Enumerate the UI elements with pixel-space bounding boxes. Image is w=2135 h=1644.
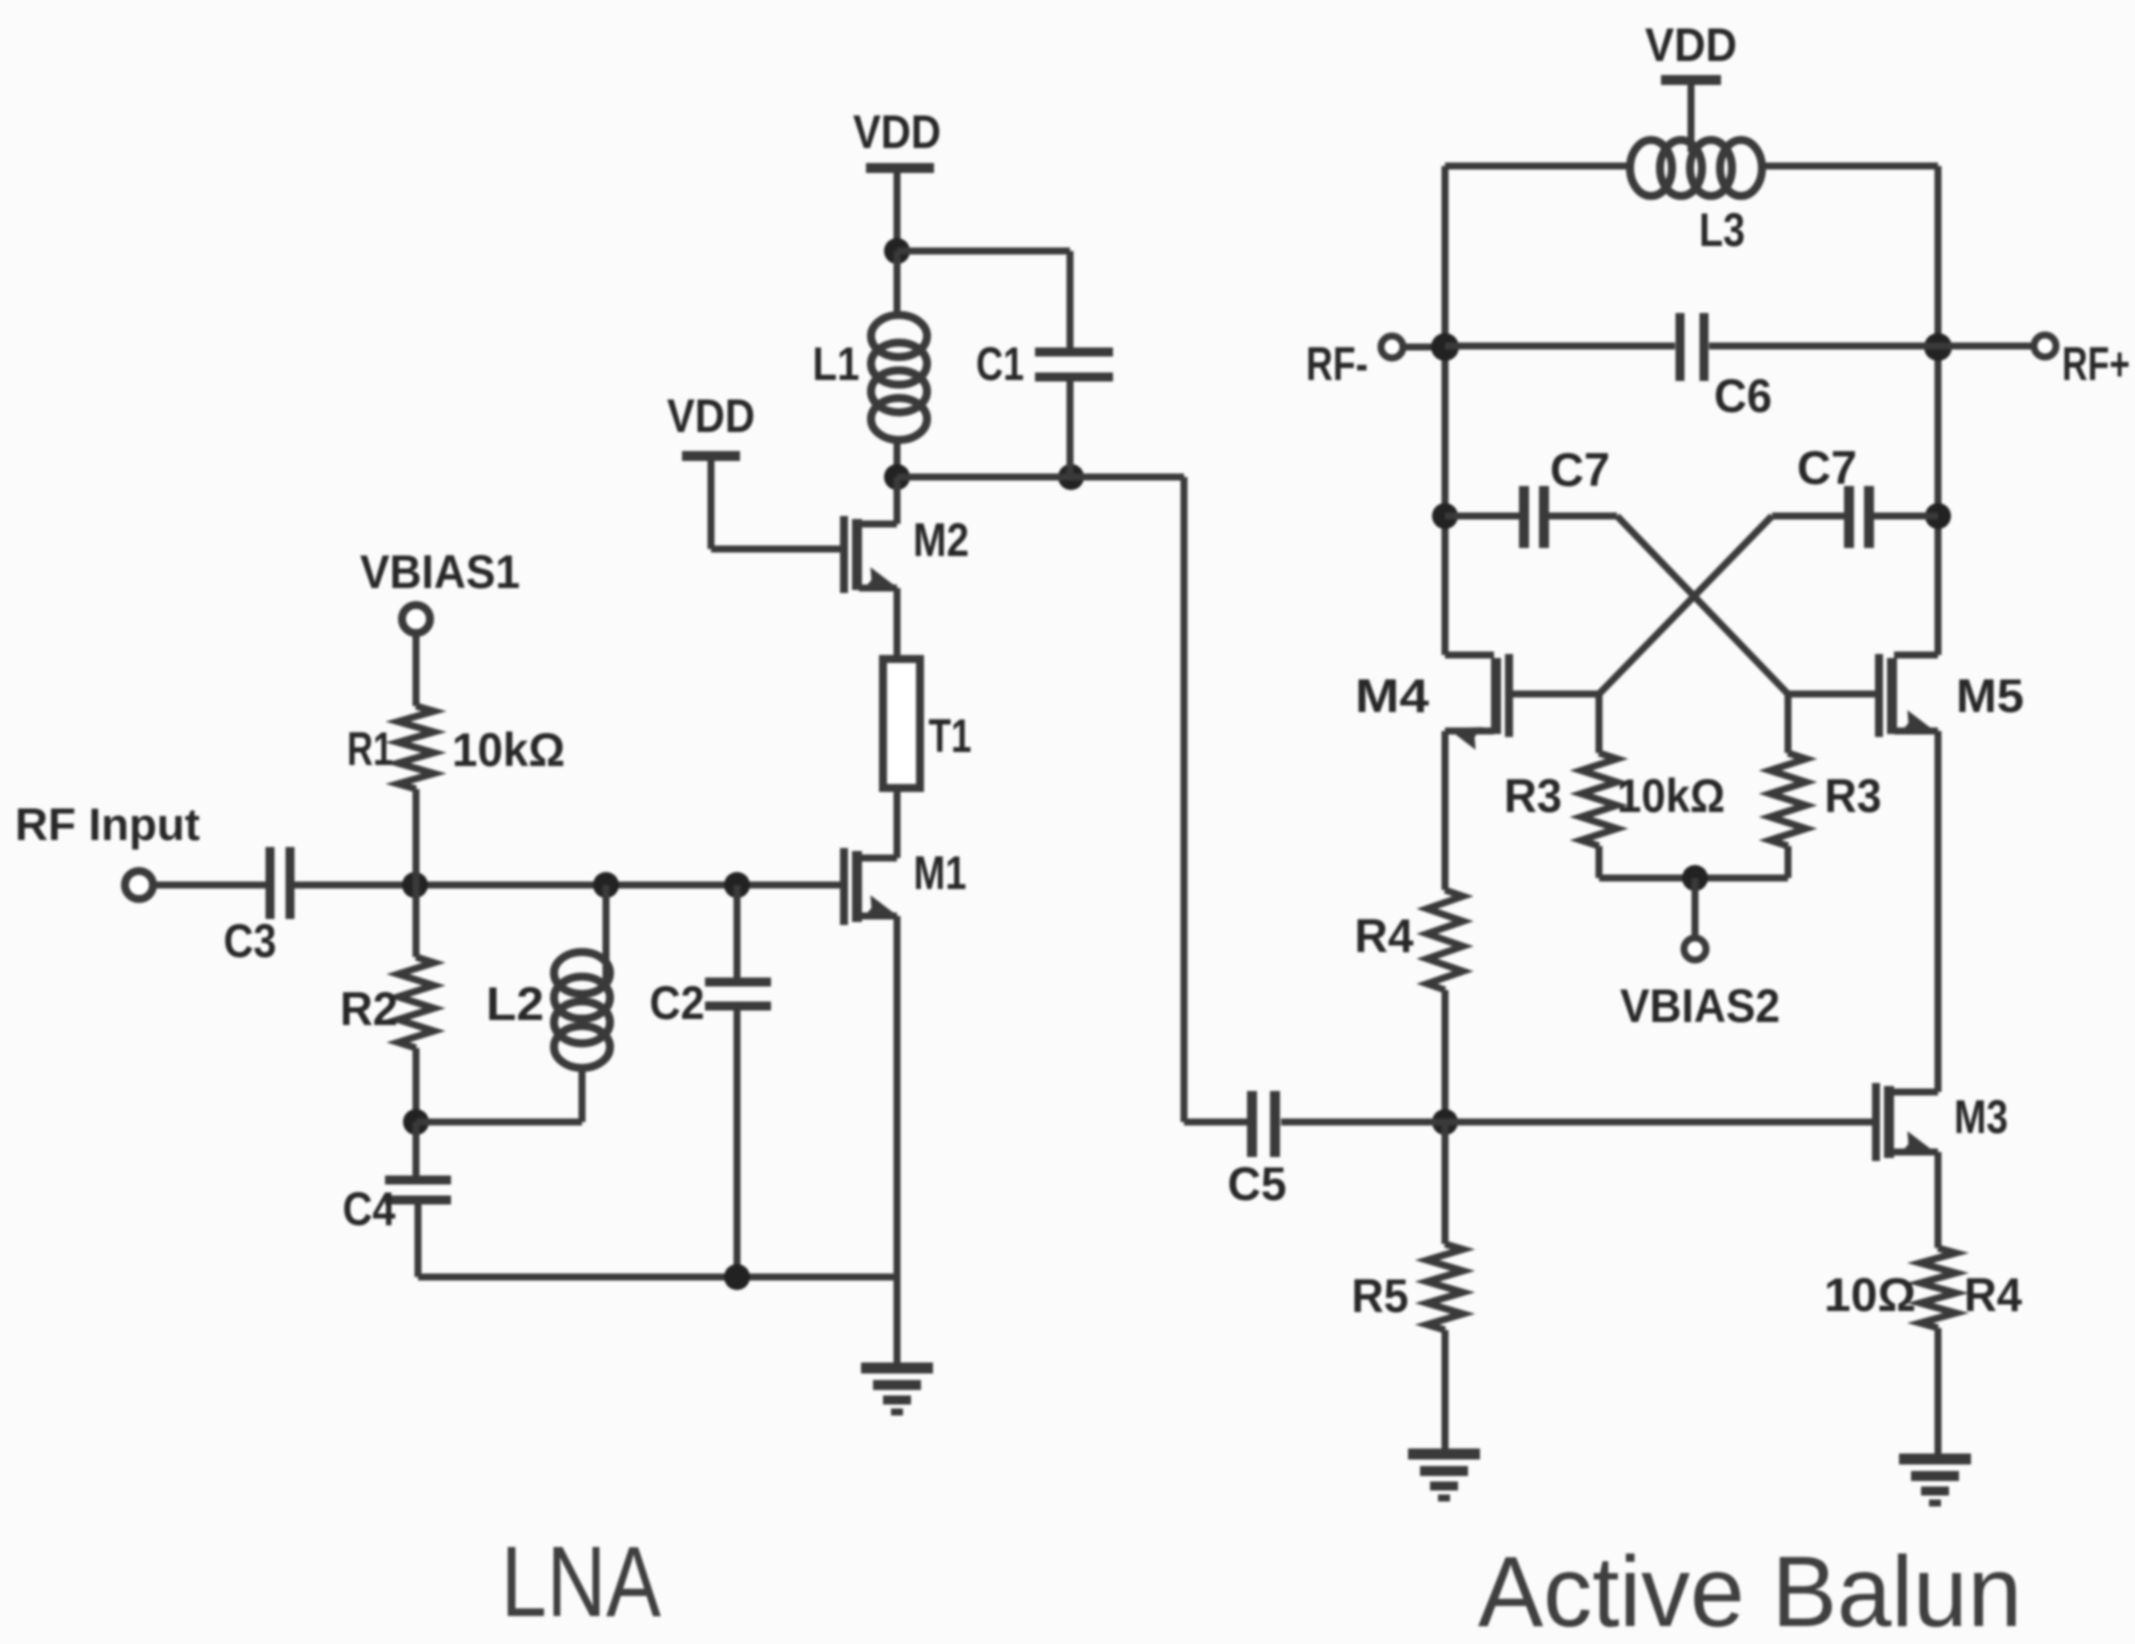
svg-text:R4: R4 xyxy=(1964,1268,2022,1321)
svg-text:L1: L1 xyxy=(813,337,860,390)
svg-text:C5: C5 xyxy=(1228,1157,1287,1210)
svg-text:M1: M1 xyxy=(914,846,967,899)
svg-text:C6: C6 xyxy=(1714,369,1772,422)
svg-text:VDD: VDD xyxy=(1645,18,1737,71)
svg-text:M5: M5 xyxy=(1956,669,2024,722)
svg-text:R2: R2 xyxy=(340,982,398,1035)
svg-text:R1: R1 xyxy=(347,722,393,775)
svg-text:VDD: VDD xyxy=(667,389,755,442)
svg-text:C7: C7 xyxy=(1797,441,1857,494)
svg-text:10kΩ: 10kΩ xyxy=(452,723,565,776)
svg-text:C2: C2 xyxy=(650,976,705,1029)
svg-text:C4: C4 xyxy=(343,1182,396,1235)
svg-text:LNA: LNA xyxy=(501,1526,661,1638)
svg-text:L2: L2 xyxy=(486,977,544,1030)
svg-text:R5: R5 xyxy=(1352,1269,1409,1322)
svg-text:C3: C3 xyxy=(224,914,277,967)
svg-text:T1: T1 xyxy=(929,709,972,762)
svg-text:VBIAS2: VBIAS2 xyxy=(1620,979,1780,1032)
svg-text:M3: M3 xyxy=(1954,1090,2008,1143)
svg-text:10kΩ: 10kΩ xyxy=(1617,769,1725,822)
svg-text:C7: C7 xyxy=(1550,443,1610,496)
svg-text:RF+: RF+ xyxy=(2062,337,2130,390)
svg-text:VBIAS1: VBIAS1 xyxy=(360,545,520,598)
svg-text:R3: R3 xyxy=(1504,769,1562,822)
svg-text:RF-: RF- xyxy=(1306,337,1368,390)
svg-text:RF Input: RF Input xyxy=(15,799,200,850)
svg-text:L3: L3 xyxy=(1699,203,1745,256)
svg-text:M4: M4 xyxy=(1355,669,1429,722)
svg-text:VDD: VDD xyxy=(853,105,941,158)
svg-text:10Ω: 10Ω xyxy=(1824,1268,1916,1321)
svg-text:M2: M2 xyxy=(913,513,969,566)
svg-text:Active Balun: Active Balun xyxy=(1478,1536,2022,1644)
svg-text:R3: R3 xyxy=(1825,769,1882,822)
svg-text:R4: R4 xyxy=(1355,909,1414,962)
svg-text:C1: C1 xyxy=(976,337,1024,390)
